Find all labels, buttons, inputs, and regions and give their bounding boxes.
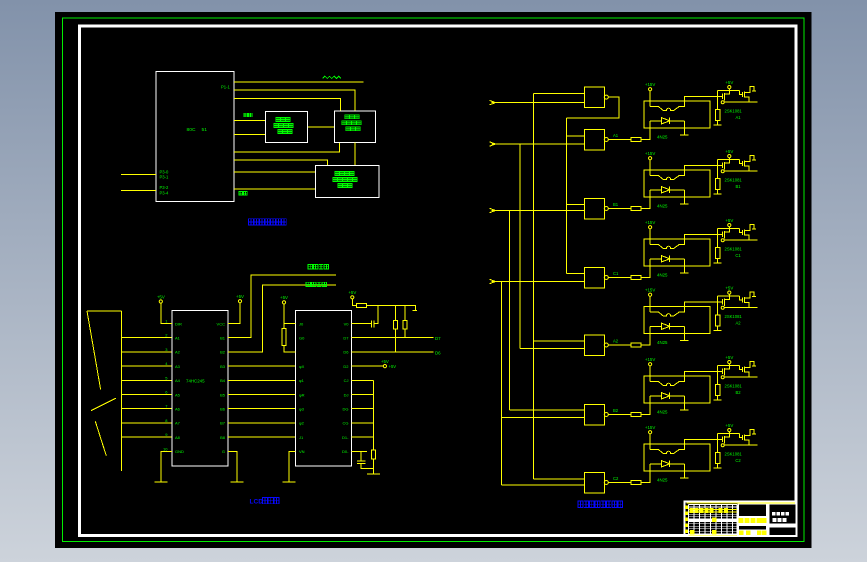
svg-text:+5V: +5V xyxy=(389,364,397,369)
svg-text:B1: B1 xyxy=(735,184,741,189)
text keypad line3 xyxy=(346,127,360,131)
wire display driver to keypad xyxy=(308,126,335,128)
opto LED side C2 xyxy=(650,439,718,453)
ground opto B2 xyxy=(680,409,688,411)
opto diode B2 xyxy=(650,393,684,399)
wire P1-1 to keypad box xyxy=(234,90,355,111)
svg-text:+5V: +5V xyxy=(157,294,165,299)
text display driver line1 xyxy=(276,118,290,122)
wire input line y=102.6 xyxy=(492,102,585,104)
optocoupler U19 4N25 xyxy=(644,444,710,471)
svg-text:CJ: CJ xyxy=(344,378,349,383)
connector J1 display socket xyxy=(87,311,121,471)
svg-text:B2: B2 xyxy=(220,350,226,355)
power +5V xyxy=(348,290,356,299)
title block white text xyxy=(772,512,789,522)
caption stepper driver circuit xyxy=(578,501,623,508)
wire V0 row xyxy=(352,323,372,325)
wire B7 to LCD xyxy=(228,422,296,424)
resistor R4 xyxy=(357,303,367,307)
net label data port xyxy=(308,265,329,269)
wire connector to 74HC245 A7 xyxy=(121,422,172,424)
svg-text:4N25: 4N25 xyxy=(657,204,668,209)
wire opto emitter down C1 xyxy=(683,259,685,273)
text display driver line3 xyxy=(278,130,292,134)
transistor Q6 2SK1081 xyxy=(718,429,758,446)
ground opto A2 xyxy=(680,340,688,342)
wire gate B1 output xyxy=(608,208,631,210)
wire rail to R6 xyxy=(404,305,406,320)
ground U5 GND xyxy=(154,474,167,482)
wire input line y=210.5 xyxy=(492,210,585,212)
svg-text:VCC: VCC xyxy=(217,321,226,326)
gate U11 A2 xyxy=(585,335,605,356)
svg-text:GND: GND xyxy=(175,449,184,454)
wire B5 to LCD xyxy=(228,394,296,396)
svg-text:B8: B8 xyxy=(220,435,226,440)
svg-text:φ3: φ3 xyxy=(299,407,305,412)
resistor R11 series xyxy=(631,138,641,142)
svg-text:P3-4: P3-4 xyxy=(160,191,170,196)
optocoupler U17 4N25 xyxy=(644,307,710,334)
resistor R13 series xyxy=(631,276,641,280)
wire B2 control port xyxy=(228,285,336,352)
wire connector to 74HC245 A6 xyxy=(121,408,172,410)
svg-text:+5V: +5V xyxy=(725,218,733,223)
resistor R22 gate xyxy=(716,178,721,189)
net label control port xyxy=(306,282,327,286)
wire bus4 to gate C2 lower xyxy=(502,484,585,486)
power +15V C1 xyxy=(645,220,655,229)
svg-text:+15V: +15V xyxy=(645,425,655,430)
green border frame xyxy=(63,18,805,542)
opto diode C2 xyxy=(650,461,684,467)
wire keypad box to power box xyxy=(354,142,356,165)
wire D6 line xyxy=(352,351,434,353)
wire GND down xyxy=(161,451,172,482)
input arrow xyxy=(490,279,496,283)
wire to keypad box bottom xyxy=(234,142,339,152)
wire WR to power box xyxy=(234,188,316,190)
svg-text:φ1: φ1 xyxy=(299,378,305,383)
svg-text:+5V: +5V xyxy=(725,423,733,428)
wire +15V into opto B1 xyxy=(649,160,651,176)
wire contrast to LCD pin3 xyxy=(284,346,296,352)
svg-text:+5V: +5V xyxy=(236,294,244,299)
input arrow xyxy=(490,208,496,212)
wire opto emitter down B1 xyxy=(683,190,685,204)
wire gate B2 output xyxy=(608,414,631,416)
power +15V B1 xyxy=(645,151,655,160)
svg-text:A2: A2 xyxy=(735,320,741,325)
wire gate node down C2 xyxy=(717,439,719,452)
wire enable to gate B1 xyxy=(567,204,585,206)
power +5V drain A1 xyxy=(725,80,733,89)
wire bus4 to gate B2 lower xyxy=(502,416,585,418)
svg-text:+15V: +15V xyxy=(645,220,655,225)
svg-text:10: 10 xyxy=(163,446,168,451)
svg-text:B4: B4 xyxy=(220,378,226,383)
opto LED side B1 xyxy=(650,165,718,179)
svg-text:A1: A1 xyxy=(735,115,741,120)
gate U12 B2 xyxy=(585,404,605,425)
ground R7 xyxy=(367,469,380,474)
wire resistor to opto A2 xyxy=(641,326,651,345)
svg-text:2SK1081: 2SK1081 xyxy=(725,108,743,113)
wire connector to 74HC245 A8 xyxy=(121,436,172,438)
net label TXD xyxy=(244,113,252,117)
svg-text:C2: C2 xyxy=(735,458,741,463)
power +5V xyxy=(157,294,165,303)
svg-text:A2: A2 xyxy=(175,350,181,355)
wire gate node down B2 xyxy=(717,371,719,384)
wire +15V into opto C2 xyxy=(649,434,651,450)
svg-text:4N25: 4N25 xyxy=(657,340,668,345)
svg-text:DJ: DJ xyxy=(344,392,349,397)
optocoupler U16 4N25 xyxy=(644,239,710,266)
svg-text:P3-0: P3-0 xyxy=(160,169,170,174)
svg-text:D6: D6 xyxy=(343,350,349,355)
title block right cells xyxy=(770,505,796,536)
svg-text:2SK1081: 2SK1081 xyxy=(725,383,743,388)
wire +5V to resistor R4 xyxy=(352,299,356,306)
wire R7 down xyxy=(373,459,375,469)
svg-text:4N25: 4N25 xyxy=(657,478,668,483)
power +5V xyxy=(280,295,288,304)
resistor R3 contrast xyxy=(282,329,286,346)
wire connector to 74HC245 A2 xyxy=(121,351,172,353)
wire LCD row 5 to bus xyxy=(352,379,374,381)
opto LED side C1 xyxy=(650,234,718,248)
wire +15V into opto A2 xyxy=(649,296,651,312)
power +15V C2 xyxy=(645,425,655,434)
net label WR xyxy=(239,192,247,196)
ground opto C1 xyxy=(680,272,688,274)
text power box line3 xyxy=(338,184,352,188)
ground opto C2 xyxy=(680,477,688,479)
wire opto emitter down A2 xyxy=(683,326,685,340)
svg-text:C1: C1 xyxy=(735,253,741,258)
svg-text:+15V: +15V xyxy=(645,357,655,362)
ground LCD VSS xyxy=(283,474,296,482)
wire B3 to LCD xyxy=(228,365,296,367)
power +5V drain B1 xyxy=(725,149,733,158)
svg-text:CG: CG xyxy=(343,421,349,426)
svg-text:B2: B2 xyxy=(613,408,619,413)
svg-text:2SK1081: 2SK1081 xyxy=(725,314,743,319)
resistor R12 series xyxy=(631,207,641,211)
title block revision grid xyxy=(689,505,738,536)
wire connector to 74HC245 A4 xyxy=(121,379,172,381)
block U3 keypad interface xyxy=(335,111,376,143)
svg-text:+5V: +5V xyxy=(725,285,733,290)
power +15V A1 xyxy=(645,82,655,91)
wire R25 ground stub xyxy=(714,395,722,400)
ground U5 G xyxy=(230,474,243,482)
power +5V D2 xyxy=(381,359,389,368)
gate U8 output bubble xyxy=(604,138,608,142)
wire gate node down A2 xyxy=(717,302,719,315)
svg-text:D7: D7 xyxy=(435,336,441,341)
svg-text:80C: 80C xyxy=(187,127,196,133)
wire right bus down xyxy=(373,380,375,450)
resistor R5 pullup xyxy=(394,320,398,329)
gate U8 A1 xyxy=(585,129,605,150)
net label P1 bus xyxy=(323,76,341,78)
IC U6 LCD module xyxy=(296,311,352,467)
wire R23 ground stub xyxy=(714,258,722,263)
gate U9 output bubble xyxy=(604,207,608,211)
input arrow xyxy=(490,100,496,104)
svg-text:P3-1: P3-1 xyxy=(160,175,170,180)
wire opto emitter down B2 xyxy=(683,396,685,410)
wire to contrast resistor xyxy=(283,324,285,329)
svg-text:4N25: 4N25 xyxy=(657,135,668,140)
svg-text:B5: B5 xyxy=(220,392,226,397)
wire resistor to opto B2 xyxy=(641,396,651,415)
optocoupler U14 4N25 xyxy=(644,101,710,128)
wire LCD VSS down xyxy=(289,451,296,482)
resistor R15 series xyxy=(631,413,641,417)
wire LCD row 8 to bus xyxy=(352,422,374,424)
wire bus1 vertical xyxy=(532,93,534,479)
resistor R14 series xyxy=(631,343,641,347)
resistor R16 series xyxy=(631,481,641,485)
wire bus2 vertical xyxy=(519,144,521,348)
opto diode A1 xyxy=(650,118,684,124)
svg-text:A1: A1 xyxy=(613,133,619,138)
optocoupler U18 4N25 xyxy=(644,376,710,403)
svg-text:φR: φR xyxy=(299,392,305,397)
wire connector to 74HC245 A5 xyxy=(121,394,172,396)
wire gate A2 output xyxy=(608,344,631,346)
svg-text:G0: G0 xyxy=(299,336,305,341)
svg-text:LCD: LCD xyxy=(250,499,264,506)
power +15V A2 xyxy=(645,288,655,297)
opto diode C1 xyxy=(650,256,684,262)
title block middle/right background xyxy=(738,504,797,536)
svg-text:+15V: +15V xyxy=(645,288,655,293)
wire bus3 to gate B2 upper xyxy=(510,409,585,411)
text power box line2 xyxy=(333,178,357,182)
wire G down xyxy=(228,451,237,482)
input arrow xyxy=(490,142,496,146)
svg-text:A4: A4 xyxy=(175,378,181,383)
wire MCU input 1 xyxy=(121,174,156,176)
wire D2 row xyxy=(352,365,384,367)
wire to C2 cap xyxy=(360,451,362,461)
wire +15V into opto A1 xyxy=(649,91,651,107)
text display driver line2 xyxy=(274,124,293,128)
wire B4 to LCD xyxy=(228,379,296,381)
svg-text:B3: B3 xyxy=(220,364,226,369)
IC U5 74HC245 xyxy=(172,311,228,467)
svg-text:DG: DG xyxy=(343,407,349,412)
gate U7 output bubble xyxy=(604,95,608,99)
svg-text:D0-: D0- xyxy=(342,449,349,454)
opto diode A2 xyxy=(650,323,684,329)
gate U13 C2 xyxy=(585,472,605,493)
wire B1 data port xyxy=(228,275,336,338)
transistor Q3 2SK1081 xyxy=(718,224,758,241)
svg-text:2SK1081: 2SK1081 xyxy=(725,177,743,182)
wire gate C1 output xyxy=(608,277,631,279)
power +15V B2 xyxy=(645,357,655,366)
svg-text:+15V: +15V xyxy=(645,82,655,87)
svg-text:D2: D2 xyxy=(343,364,349,369)
gate U13 output bubble xyxy=(604,481,608,485)
svg-text:B1: B1 xyxy=(613,202,619,207)
wire P1 bus xyxy=(234,81,363,83)
svg-text:51: 51 xyxy=(202,127,208,133)
resistor R7 xyxy=(372,450,376,459)
wire +5V rail with stub xyxy=(366,305,417,310)
svg-text:P3-2: P3-2 xyxy=(160,185,170,190)
resistor R26 gate xyxy=(716,452,721,463)
wire DIR to +5V xyxy=(161,303,172,323)
wire rail to R5 xyxy=(394,305,396,320)
wire U7 output to enable bus xyxy=(567,97,619,118)
transistor Q1 2SK1081 xyxy=(718,86,758,103)
svg-text:DIR: DIR xyxy=(175,321,182,326)
gate U7 enable xyxy=(585,87,605,108)
svg-text:φ2: φ2 xyxy=(299,421,305,426)
svg-text:B7: B7 xyxy=(220,421,226,426)
wire LCD row 7 to bus xyxy=(352,408,374,410)
power +5V drain A2 xyxy=(725,285,733,294)
svg-text:+5V: +5V xyxy=(725,355,733,360)
resistor R21 gate xyxy=(716,109,721,120)
wire resistor to opto A1 xyxy=(641,121,651,140)
opto LED side A1 xyxy=(650,96,718,110)
resistor R24 gate xyxy=(716,315,721,326)
wire resistor to opto C1 xyxy=(641,259,651,278)
ground opto A1 xyxy=(680,134,688,136)
svg-text:V0: V0 xyxy=(344,321,350,326)
transistor Q2 2SK1081 xyxy=(718,155,758,172)
wire resistor to opto C2 xyxy=(641,464,651,483)
title block yellow annotations xyxy=(685,506,767,535)
wire R22 ground stub xyxy=(714,189,722,194)
opto LED side B2 xyxy=(650,371,718,385)
wire to power box xyxy=(234,160,328,166)
text keypad line1 xyxy=(345,115,359,119)
svg-text:B6: B6 xyxy=(220,407,226,412)
wire opto emitter down C2 xyxy=(683,464,685,478)
wire input line y=281.5 xyxy=(492,281,585,283)
title block yellow grid lines xyxy=(689,510,738,536)
gate U12 output bubble xyxy=(604,413,608,417)
power +5V xyxy=(236,294,244,303)
wire gate C2 output xyxy=(608,482,631,484)
svg-text:A7: A7 xyxy=(175,421,181,426)
wire MCU input 2 xyxy=(121,190,156,192)
opto LED side A2 xyxy=(650,302,718,316)
svg-text:A3: A3 xyxy=(175,364,181,369)
ground opto B1 xyxy=(680,203,688,205)
opto diode B1 xyxy=(650,187,684,193)
svg-text:+5V: +5V xyxy=(725,149,733,154)
capacitor C1 xyxy=(371,321,374,328)
power +5V drain B2 xyxy=(725,355,733,364)
gate U10 C1 xyxy=(585,267,605,288)
wire B6 to LCD xyxy=(228,408,296,410)
caption MCU control circuit xyxy=(249,219,287,225)
wire D7 line xyxy=(352,337,434,339)
wire to keypad box xyxy=(234,99,341,111)
wire TXD to display driver xyxy=(234,120,266,122)
wire +5V to LCD pin1 xyxy=(284,304,296,324)
svg-text:A1: A1 xyxy=(175,336,181,341)
text keypad line2 xyxy=(342,121,361,125)
wire VCC to +5V xyxy=(228,303,240,324)
svg-text:+5V: +5V xyxy=(381,359,389,364)
wire opto emitter down A1 xyxy=(683,121,685,135)
title block frame xyxy=(685,502,797,536)
wire B8 to LCD xyxy=(228,436,296,438)
svg-text:P1-1: P1-1 xyxy=(221,85,231,90)
transistor Q5 2SK1081 xyxy=(718,361,758,378)
svg-text:2SK1081: 2SK1081 xyxy=(725,246,743,251)
wire C2 to R7 bottom xyxy=(361,464,373,469)
wire input line y=144 xyxy=(492,143,585,145)
svg-text:D6: D6 xyxy=(435,350,441,355)
wire connector to 74HC245 A1 xyxy=(121,337,172,339)
resistor R25 gate xyxy=(716,384,721,395)
svg-text:A6: A6 xyxy=(175,407,181,412)
wire +15V into opto B2 xyxy=(649,366,651,382)
MCU U1 80C51 xyxy=(156,72,234,202)
optocoupler U15 4N25 xyxy=(644,170,710,197)
wire R6 to D7 row xyxy=(404,329,406,338)
wire gate A1 output xyxy=(608,139,631,141)
svg-text:D7: D7 xyxy=(343,336,349,341)
svg-text:+5V: +5V xyxy=(725,80,733,85)
wire LCD row 9 to bus xyxy=(352,436,374,438)
wire LCD row 6 to bus xyxy=(352,394,374,396)
svg-text:G: G xyxy=(222,449,225,454)
power +5V drain C1 xyxy=(725,218,733,227)
svg-text:φX: φX xyxy=(299,364,305,369)
wire bus4 vertical xyxy=(501,282,503,485)
wire gate node down B1 xyxy=(717,165,719,178)
wire enable bus vertical xyxy=(566,118,568,273)
wire gate node down A1 xyxy=(717,96,719,109)
svg-text:74HC245: 74HC245 xyxy=(186,379,205,384)
wire R26 ground stub xyxy=(714,463,722,468)
svg-text:A8: A8 xyxy=(175,435,181,440)
wire gate node down C1 xyxy=(717,234,719,247)
svg-text:C2: C2 xyxy=(613,476,619,481)
wire P3 to power box xyxy=(234,171,316,173)
wire bus3 vertical xyxy=(509,211,511,411)
gate U9 B1 xyxy=(585,198,605,219)
wire bus1 to gate C2 upper xyxy=(533,478,584,480)
svg-text:A2: A2 xyxy=(613,339,619,344)
wire connector to 74HC245 A3 xyxy=(121,365,172,367)
gate U10 output bubble xyxy=(604,276,608,280)
svg-text:C1: C1 xyxy=(613,271,619,276)
svg-text:B2: B2 xyxy=(735,390,741,395)
svg-text:VN: VN xyxy=(299,449,305,454)
block U4 power interface xyxy=(316,165,380,197)
wire D0 row xyxy=(352,450,367,452)
resistor R6 pullup xyxy=(403,320,407,329)
svg-text:D1-: D1- xyxy=(342,435,349,440)
block U2 display driver xyxy=(266,111,308,142)
transistor Q4 2SK1081 xyxy=(718,292,758,309)
svg-text:+15V: +15V xyxy=(645,151,655,156)
